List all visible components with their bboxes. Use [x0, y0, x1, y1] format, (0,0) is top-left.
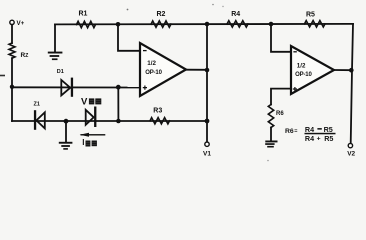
- label Iref (I + CJK blocks): [82, 138, 97, 147]
- ground G3 below R6: [265, 141, 277, 148]
- svg-text:R6: R6: [285, 128, 294, 135]
- resistor R1: [77, 21, 96, 27]
- resistor R2: [151, 21, 171, 27]
- wire V+ to Rz: [11, 25, 13, 43]
- wire lower diode rail: [12, 120, 207, 122]
- svg-text:R4: R4: [231, 11, 240, 18]
- op-amp U2: [291, 46, 334, 94]
- svg-text:R4: R4: [305, 125, 314, 134]
- wire U2 output: [334, 69, 352, 71]
- wire vertical between rails: [117, 87, 119, 121]
- svg-text:V+: V+: [17, 20, 25, 27]
- terminal V+: [10, 20, 14, 24]
- diode D1: [61, 80, 70, 95]
- diode Vref: [86, 110, 94, 125]
- svg-text:=: =: [294, 129, 297, 135]
- junction node lower rail mid: [116, 119, 121, 124]
- junction node left rail / upper rail: [10, 85, 14, 89]
- svg-text:V1: V1: [203, 150, 211, 157]
- svg-text:+: +: [317, 136, 321, 143]
- formula R6 = R4·R5/(R4+R5): [285, 125, 336, 143]
- wire ground branch lower-left: [65, 121, 67, 142]
- wire noninverting input U2 to R6: [271, 89, 291, 105]
- wire inverting input U1: [118, 24, 140, 51]
- svg-text:OP-10: OP-10: [295, 72, 312, 78]
- svg-text:R4: R4: [305, 134, 314, 143]
- resistor Rz: [9, 43, 15, 58]
- specks: [127, 9, 129, 11]
- svg-text:V2: V2: [347, 150, 355, 157]
- junction node U2 output: [349, 68, 354, 73]
- label Vref (V + CJK blocks): [81, 96, 101, 107]
- wire top-left corner down to ground: [54, 24, 56, 52]
- ground G1 top-left: [48, 52, 63, 61]
- terminal V2: [348, 143, 352, 147]
- stray mark left edge: [0, 75, 5, 77]
- svg-text:V: V: [81, 96, 88, 107]
- resistor R4: [227, 21, 248, 27]
- terminal V1: [205, 142, 209, 146]
- zener Z1: [36, 112, 44, 128]
- wire top rail: [55, 23, 353, 26]
- wire left rail: [11, 58, 13, 121]
- svg-text:R5: R5: [324, 134, 333, 143]
- resistor R6: [268, 105, 273, 128]
- wire R6 to ground: [270, 128, 272, 142]
- junction node after R1: [116, 22, 121, 27]
- wire U1 output: [186, 69, 207, 71]
- arrow Iref: [80, 133, 106, 137]
- svg-text:I: I: [82, 138, 84, 147]
- svg-text:Z1: Z1: [34, 102, 40, 108]
- svg-text:R6: R6: [276, 111, 284, 117]
- resistor R3: [150, 118, 170, 124]
- svg-text:R5: R5: [306, 11, 315, 18]
- op-amp U1: [140, 43, 186, 96]
- junction node U1 output: [205, 68, 210, 73]
- junction node R3 right: [205, 119, 210, 124]
- svg-text:R1: R1: [79, 10, 88, 17]
- junction node R2/R4 top: [205, 22, 210, 27]
- wire output node vertical to V1: [206, 24, 208, 142]
- svg-text:R3: R3: [153, 107, 162, 114]
- wire upper diode rail: [12, 86, 140, 88]
- svg-text:1/2: 1/2: [297, 62, 306, 69]
- svg-text:R2: R2: [157, 11, 166, 18]
- wire inverting input U2: [271, 24, 291, 52]
- svg-text:RZ: RZ: [21, 52, 29, 59]
- junction node ground branch: [64, 119, 69, 124]
- svg-text:D1: D1: [57, 69, 64, 75]
- svg-text:1/2: 1/2: [147, 60, 156, 67]
- junction node upper rail mid: [116, 85, 121, 90]
- ground G2 lower-left: [59, 142, 73, 150]
- svg-text:R5: R5: [324, 125, 333, 134]
- wire right vertical to V2: [351, 24, 353, 143]
- resistor R5: [305, 21, 326, 27]
- svg-text:OP-10: OP-10: [145, 70, 162, 76]
- junction node after R4: [269, 22, 274, 27]
